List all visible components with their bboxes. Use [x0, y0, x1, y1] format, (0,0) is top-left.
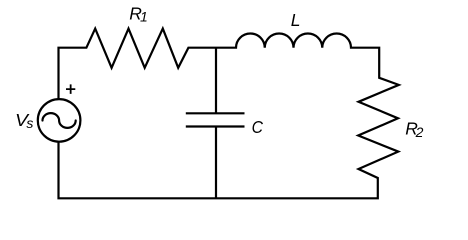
svg-text:L: L [291, 10, 301, 30]
svg-text:1: 1 [140, 9, 148, 25]
svg-text:C: C [252, 117, 264, 137]
svg-text:2: 2 [415, 124, 424, 140]
svg-text:s: s [26, 115, 33, 131]
